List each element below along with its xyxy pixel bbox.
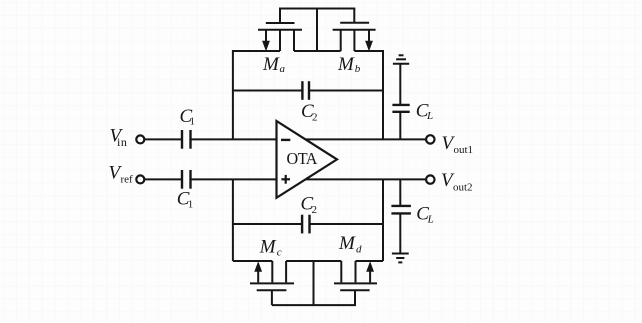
terminal Vin — [136, 135, 144, 143]
wire bottom-right source rail — [356, 260, 384, 262]
svg-text:a: a — [280, 63, 286, 75]
label Vout1 — [442, 133, 474, 156]
capacitor C1 (top) — [182, 130, 191, 149]
svg-text:c: c — [277, 246, 282, 258]
wire right vertical upper — [382, 50, 384, 139]
label Md — [338, 233, 362, 255]
wire top gate bus — [279, 8, 355, 10]
terminal Vout2 — [426, 175, 434, 183]
ground (bottom) — [392, 254, 409, 263]
wire CL top to Vout1 — [399, 112, 401, 140]
terminal Vref — [136, 175, 144, 183]
wire ground to CL top — [399, 64, 401, 105]
wire C1 to inverting input — [191, 138, 277, 140]
svg-text:out1: out1 — [454, 144, 474, 156]
wire left node to C2 top — [233, 90, 303, 92]
wire CL bottom to ground — [399, 213, 401, 253]
ground (top, inverted) — [393, 55, 409, 63]
svg-text:L: L — [426, 110, 433, 122]
wire Vout2 to CL bottom — [399, 180, 401, 206]
label Vref — [109, 163, 134, 186]
transistor Ma — [258, 9, 302, 52]
wire top-right source rail — [354, 50, 383, 52]
svg-text:L: L — [427, 213, 434, 225]
capacitor CL (bottom) — [391, 206, 411, 214]
wire C2 top to right node — [309, 90, 383, 92]
wire bottom-left source rail — [233, 260, 272, 262]
svg-text:2: 2 — [312, 204, 318, 216]
svg-text:2: 2 — [312, 112, 318, 124]
svg-text:M: M — [337, 54, 355, 75]
label CL (bottom) — [416, 204, 434, 226]
wire left vertical lower — [232, 179, 234, 261]
wire left node to C2 bottom — [233, 223, 302, 225]
wire left vertical upper — [232, 50, 234, 139]
svg-text:out2: out2 — [453, 181, 473, 193]
wire Vref to C1 — [144, 178, 182, 180]
label Vout2 — [441, 170, 473, 193]
capacitor CL (top) — [392, 105, 409, 112]
label Vin — [110, 126, 128, 149]
wire top inner rail — [294, 50, 341, 52]
wire Vin to C1 — [144, 138, 182, 140]
wire top-left source rail — [233, 50, 280, 52]
capacitor C2 (bottom feedback) — [302, 215, 309, 234]
capacitor C2 (top feedback) — [302, 81, 309, 100]
wire C1 to non-inverting input — [191, 178, 277, 180]
label Mb — [337, 54, 361, 75]
label Mc — [259, 237, 282, 259]
label C2 (bottom) — [301, 194, 318, 217]
wire Vout2 — [300, 178, 426, 180]
transistor Md — [334, 261, 377, 305]
transistor Mc — [250, 261, 294, 305]
svg-text:M: M — [338, 233, 356, 254]
svg-text:M: M — [262, 54, 280, 75]
label Ma — [262, 54, 286, 75]
label C2 (top) — [301, 101, 318, 124]
label C1 (top) — [180, 106, 196, 128]
svg-text:M: M — [259, 237, 277, 258]
label C1 (bottom) — [177, 189, 194, 211]
svg-text:in: in — [117, 135, 128, 149]
capacitor C1 (bottom) — [182, 170, 191, 189]
svg-text:ref: ref — [121, 173, 134, 185]
svg-text:b: b — [355, 63, 361, 75]
svg-text:1: 1 — [188, 198, 194, 210]
wire middle vertical (bottom, common node to gates) — [313, 261, 315, 305]
wire right vertical lower — [382, 179, 384, 261]
svg-text:1: 1 — [190, 115, 196, 127]
wire middle vertical (top, gates to common node) — [316, 8, 318, 52]
label CL (top) — [416, 100, 433, 122]
wire Vout1 — [300, 138, 426, 140]
svg-text:d: d — [356, 243, 362, 255]
terminal Vout1 — [426, 135, 434, 143]
transistor Mb — [333, 9, 376, 52]
svg-text:OTA: OTA — [287, 149, 319, 168]
wire bottom inner rail — [286, 260, 341, 262]
wire C2 bottom to right node — [310, 223, 384, 225]
op-amp U1 OTA — [277, 121, 338, 198]
wire bottom gate bus — [272, 304, 356, 306]
